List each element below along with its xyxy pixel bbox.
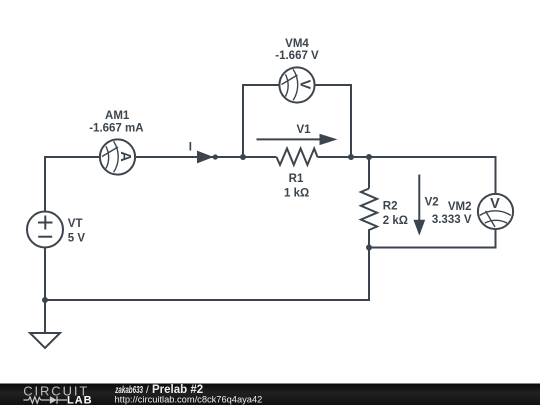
wire: node A up to VM4 left xyxy=(242,84,244,157)
wire: VM4 top-left horizontal lead xyxy=(242,84,280,86)
svg-text:2 kΩ: 2 kΩ xyxy=(383,215,408,227)
svg-text:VM2: VM2 xyxy=(448,201,472,213)
svg-text:R2: R2 xyxy=(383,201,398,213)
voltage source VT xyxy=(27,212,63,248)
svg-text:LAB: LAB xyxy=(67,394,93,405)
resistor R2 zigzag xyxy=(361,189,377,233)
wire: R2 top lead from node C xyxy=(368,157,370,189)
wire: VT bottom to ground node xyxy=(44,248,46,334)
junction dot: ground node xyxy=(42,297,48,303)
svg-text:VM4: VM4 xyxy=(285,38,309,50)
wire: VM2 bottom to lower-right corner xyxy=(495,229,497,249)
junction dot: node B xyxy=(348,154,354,160)
ground symbol xyxy=(30,333,60,348)
svg-text:3.333 V: 3.333 V xyxy=(432,214,472,226)
wire: VM4 right down to node B xyxy=(350,84,352,157)
svg-text:http://circuitlab.com/c8ck76q4: http://circuitlab.com/c8ck76q4aya42 xyxy=(115,395,263,405)
wire: top-right corner down to VM2 top xyxy=(495,156,497,194)
wire: node B to node C xyxy=(351,156,369,158)
svg-text:AM1: AM1 xyxy=(105,110,130,122)
junction dot: node D xyxy=(366,245,372,251)
wire: R1 left lead from node A xyxy=(243,156,277,158)
voltmeter VM4 xyxy=(279,67,314,102)
svg-text:R1: R1 xyxy=(289,173,304,185)
footer logo schematic wire with resistor and diode xyxy=(23,396,67,403)
ammeter AM1 xyxy=(100,139,135,174)
svg-text:V: V xyxy=(297,80,313,90)
voltmeter VM2 xyxy=(478,194,513,229)
svg-text:V1: V1 xyxy=(296,124,311,136)
svg-text:I: I xyxy=(189,141,192,153)
wire: node D down to bottom rail xyxy=(368,248,370,302)
wire: bottom rail xyxy=(45,299,370,301)
wire: node C to top-right corner xyxy=(369,156,497,158)
svg-text:V2: V2 xyxy=(425,197,439,209)
footer bar xyxy=(0,384,540,405)
svg-text:-1.667 V: -1.667 V xyxy=(275,50,319,62)
svg-text:V: V xyxy=(490,196,500,212)
wire: R1 right lead to node B xyxy=(318,156,352,158)
voltage arrow V1 xyxy=(257,134,338,145)
svg-text:A: A xyxy=(117,151,133,162)
svg-text:zakab633: zakab633 xyxy=(115,383,144,395)
voltage arrow V2 xyxy=(413,175,425,236)
wire: VM4 top-right horizontal lead xyxy=(315,84,353,86)
wire: left vertical from node at y157 down to VT top xyxy=(44,157,46,212)
svg-text:5 V: 5 V xyxy=(68,233,86,245)
resistor R1 zigzag xyxy=(277,149,318,165)
footer text line 1: zakab633 / Prelab #2 xyxy=(115,383,204,396)
wire: AM1 right lead to node A xyxy=(135,156,244,158)
svg-text:VT: VT xyxy=(68,218,83,230)
svg-text:-1.667 mA: -1.667 mA xyxy=(89,122,143,134)
junction dot: node C xyxy=(366,154,372,160)
wire: lower-right rail from R2 bottom node to VM2 xyxy=(369,247,497,249)
wire: R2 bottom lead to node D xyxy=(368,233,370,248)
current arrow I on wire xyxy=(197,151,218,164)
svg-text:1 kΩ: 1 kΩ xyxy=(284,188,309,200)
wire: top-left corner to AM1 left lead xyxy=(44,156,100,158)
junction dot: node A xyxy=(240,154,246,160)
